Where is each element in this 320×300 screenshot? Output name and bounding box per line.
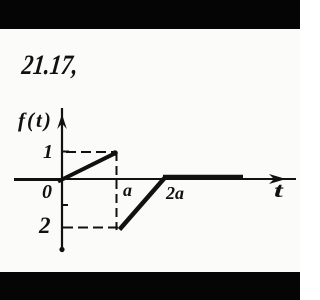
tick +1 on y-axis — [61, 151, 69, 153]
svg-text:a: a — [123, 180, 132, 200]
x-axis — [14, 178, 296, 180]
ramp segment 0 to a — [58, 153, 116, 182]
x-axis arrowhead — [269, 174, 286, 184]
top black band — [0, 0, 300, 29]
svg-text:f(t): f(t) — [18, 108, 53, 132]
ramp segment a to 2a — [120, 178, 166, 230]
svg-text:2: 2 — [38, 213, 51, 238]
svg-text:21.17,: 21.17, — [19, 49, 80, 81]
svg-text:2a: 2a — [165, 183, 184, 203]
y-axis arrowhead — [57, 114, 67, 129]
svg-text:1: 1 — [43, 141, 53, 163]
peak blob at (a,1) — [112, 150, 118, 156]
y-axis — [61, 108, 63, 249]
dashed level line y=1 — [66, 151, 115, 153]
x-axis left thick segment — [14, 178, 62, 181]
flat thick segment after 2a — [163, 175, 243, 180]
tick -1 on y-axis — [61, 204, 68, 206]
y-axis bottom blob — [59, 247, 64, 252]
dashed level line y=-2 — [63, 227, 121, 229]
svg-text:0: 0 — [42, 181, 52, 203]
dashed vertical line x=a — [116, 152, 118, 230]
bottom black band — [0, 272, 300, 300]
